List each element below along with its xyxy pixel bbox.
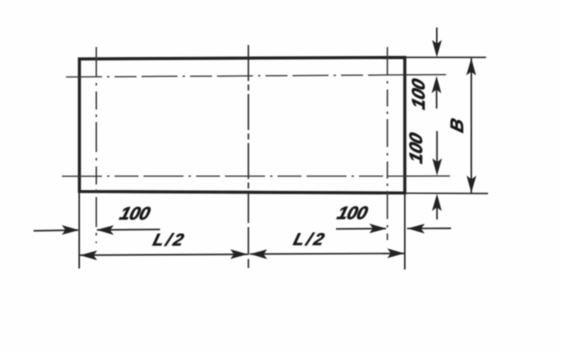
extension line bottom edge right: [405, 192, 488, 194]
centerline vertical right x=387: [386, 47, 388, 240]
plate outline (thick rectangle): [79, 57, 404, 193]
arrowhead L/2-right left end: [250, 249, 267, 259]
arrowhead 100-left outer (points right at x=79): [62, 225, 79, 235]
dim line 100 right tail inner: [336, 228, 386, 230]
arrowhead up at upper centerline x=437: [432, 76, 442, 93]
arrowhead B bottom (points down): [467, 176, 477, 193]
arrow shaft up below upper centerline x=437: [436, 82, 438, 109]
svg-text:100: 100: [335, 202, 370, 223]
svg-text:100: 100: [405, 131, 426, 166]
arrowhead down at top edge x=437: [432, 40, 442, 57]
arrowhead L/2-left left end: [80, 251, 97, 261]
svg-text:100: 100: [408, 77, 429, 112]
extension line right edge down: [404, 193, 406, 270]
dim line 100 left tail inner: [97, 228, 160, 231]
dim line B vertical: [470, 58, 472, 193]
svg-text:L/2: L/2: [151, 230, 189, 250]
arrowhead 100-right inner (points right at x=386.5): [369, 224, 386, 234]
centerline horizontal lower y=176: [62, 175, 405, 177]
svg-text:B: B: [446, 116, 467, 135]
extension line top edge right: [405, 56, 486, 58]
svg-text:100: 100: [118, 203, 153, 224]
arrowhead L/2-right right end: [387, 248, 404, 258]
arrow shaft up below bottom edge x=437: [436, 200, 438, 220]
arrow shaft down above top edge x=437: [436, 28, 438, 51]
dim line L/2 left: [80, 253, 248, 256]
arrowhead down at lower centerline x=437: [432, 158, 442, 175]
svg-text:L/2: L/2: [291, 229, 329, 249]
arrowhead 100-right outer (points left at x=407): [408, 224, 425, 234]
extension line left edge down: [78, 192, 80, 269]
arrowhead up at bottom edge x=437: [432, 194, 442, 211]
dim line 100 left tail outer: [34, 229, 79, 232]
arrowhead B top (points up): [466, 58, 476, 75]
arrowhead 100-left inner (points left at x=96): [97, 225, 114, 235]
centerline horizontal upper y=76: [66, 75, 405, 77]
dim line 100 right tail outer: [407, 227, 451, 229]
arrow shaft down above lower centerline x=437: [436, 131, 438, 169]
dim line L/2 right: [250, 252, 404, 255]
arrowhead L/2-left right end: [230, 249, 247, 259]
centerline vertical middle x=248: [247, 45, 249, 192]
centerline vertical left x=96: [95, 47, 97, 243]
